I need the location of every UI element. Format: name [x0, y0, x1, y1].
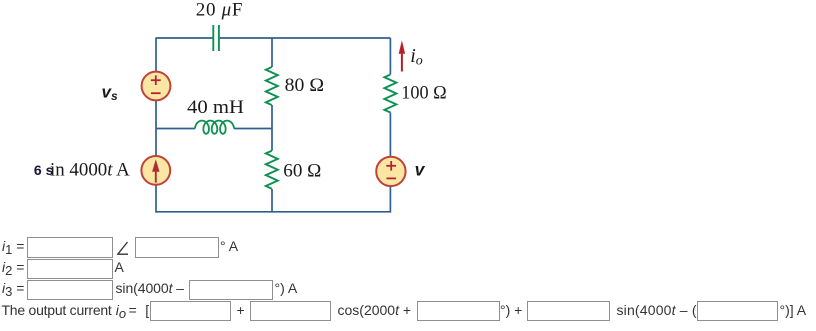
input box io cos phase	[417, 301, 500, 322]
svg-text:in 4000t A: in 4000t A	[50, 160, 130, 181]
label i3 =	[2, 281, 24, 295]
label deg A (row1)	[220, 239, 238, 253]
input box io cos amplitude	[250, 301, 331, 322]
label i2 =	[2, 260, 24, 274]
label deg ) A (row3)	[275, 281, 298, 295]
resistor 100ohm zigzag	[384, 75, 396, 113]
svg-text:60 Ω: 60 Ω	[283, 160, 321, 181]
wire: top rail left segment (to capacitor)	[156, 37, 214, 39]
resistor 80ohm zigzag	[266, 67, 278, 105]
label deg ) + (row4)	[500, 303, 522, 317]
v minus sign	[387, 177, 397, 179]
label cos(2000t +	[338, 303, 412, 317]
label sin(4000t - (row3)	[116, 281, 184, 295]
label deg )] A	[780, 303, 807, 317]
svg-text:20 μF: 20 μF	[196, 0, 243, 20]
input box io sin phase	[697, 301, 778, 322]
svg-text:v: v	[415, 159, 426, 179]
current source circle	[141, 156, 170, 185]
label The output current io = [	[2, 303, 112, 317]
input box io dc term	[150, 301, 231, 322]
svg-text:vs: vs	[102, 82, 118, 103]
wire: middle branch vertical	[271, 38, 273, 67]
current source arrow	[152, 159, 159, 182]
capacitor C 20uF plates	[213, 25, 219, 51]
label i1 =	[2, 239, 24, 253]
output current arrow io	[399, 40, 405, 71]
wire: right branch vertical	[389, 38, 391, 75]
wire: top rail right segment (capacitor to top-right corner)	[219, 37, 390, 39]
angle symbol	[117, 241, 129, 256]
v plus sign	[386, 161, 396, 178]
svg-text:io: io	[410, 45, 423, 69]
label A (row2)	[115, 260, 124, 274]
input box i2	[27, 259, 113, 280]
input box i3 phase	[189, 280, 273, 301]
svg-text:40 mH: 40 mH	[187, 97, 244, 118]
input box i1 angle	[135, 237, 219, 258]
wire: bottom rail	[156, 211, 390, 213]
wire: left branch vertical	[155, 38, 157, 213]
input box i3	[27, 280, 113, 301]
inductor L 40mH coil	[195, 121, 234, 134]
resistor 60ohm zigzag	[266, 151, 278, 189]
svg-text:80 Ω: 80 Ω	[285, 75, 324, 96]
svg-text:100 Ω: 100 Ω	[401, 83, 446, 104]
vs minus sign	[151, 92, 161, 94]
input box io sin amplitude	[527, 301, 610, 322]
circuit schematic	[0, 0, 816, 232]
wire: middle horizontal rail (inductor rail)	[156, 128, 195, 130]
label sin(4000t - (	[617, 303, 697, 317]
voltage source vs circle	[142, 72, 171, 101]
voltage source v circle	[376, 157, 405, 186]
vs plus sign	[151, 75, 161, 93]
input box i1 magnitude	[27, 237, 113, 258]
label + (row4)	[237, 303, 245, 317]
